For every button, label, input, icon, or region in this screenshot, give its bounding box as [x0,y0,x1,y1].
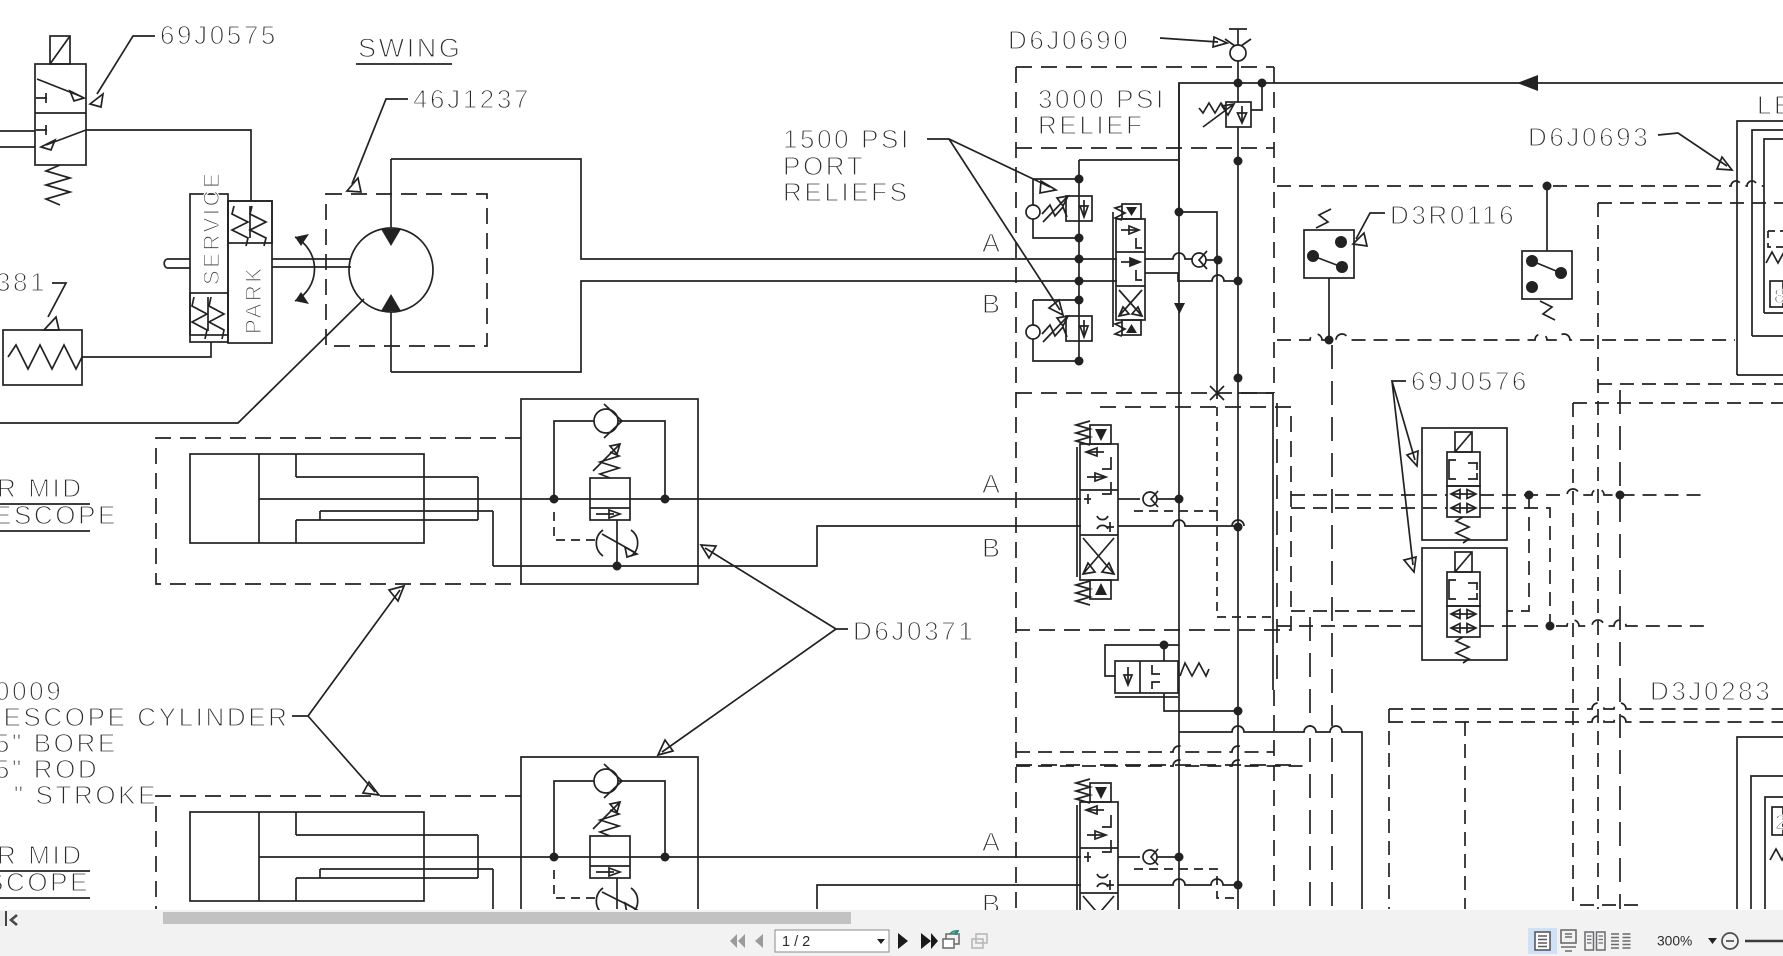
crossover line to right rail [1179,726,1362,909]
junction dot pilot trunk branch [1175,208,1184,217]
bottom dashed stub [1580,904,1640,906]
swing valve top solenoid [1115,204,1141,220]
pilot long dash vertical x1310 [1309,617,1311,909]
port relief A check ball [1026,205,1040,219]
leader line to 69J0575 [90,36,155,107]
wire from 69J0575 to brake [86,130,251,201]
svg-text:D6J0693: D6J0693 [1528,122,1650,152]
label 3000 PSI RELIEF [1038,84,1166,140]
svg-text:D6J0371: D6J0371 [853,616,975,646]
lower cylinder second stage [296,835,478,878]
upper cylinder second stage [296,477,478,520]
D3J0283 dashed box top edges [1389,703,1783,909]
return trunk through page [1178,83,1180,909]
two page view button [1585,932,1605,950]
svg-text:69J0576: 69J0576 [1411,366,1529,396]
leaders to holding valves 69J0576 [1392,381,1418,572]
junction dots on upper A line [550,495,559,504]
lower telescope cylinder barrel [190,812,424,901]
tank flow triangle on return trunk [1174,303,1185,314]
svg-text:8: 8 [1774,286,1783,308]
label SWING [356,33,463,64]
upper A line [259,498,1081,500]
swing brake SERVICE chamber [190,171,228,342]
svg-text:R MID: R MID [0,473,84,503]
leader line to D3R0381 [44,283,66,330]
pilot dashed to lower holding valve left [1277,611,1422,626]
junction dot lower tel A x return trunk [1175,853,1184,862]
pilot dashed vertical x1573 [1573,403,1783,909]
swing valve bottom solenoid [1115,320,1141,336]
next page button [898,933,908,949]
zoom slider track [1745,940,1783,942]
svg-text:B: B [982,889,1003,910]
manifold dashed right edge (upper) [1273,67,1275,393]
zoom out button [1722,933,1738,949]
tank breather symbol [1225,29,1251,61]
swing valve mid section arrow [1121,258,1142,280]
svg-text:SWING: SWING [358,33,463,63]
right pressure switch D3R0116 [1522,251,1572,299]
left switch spring [1316,209,1331,228]
port relief A spring [1042,205,1067,217]
lower tel valve A check valve [1118,849,1179,865]
long dash rail beside right rail [1276,403,1278,688]
junction dot upper tel A x return trunk [1175,495,1184,504]
junction dot header x breather [1234,79,1243,88]
right axle lock inner box [1751,776,1783,909]
right switch spring [1540,301,1555,320]
lower tel valve pilot dashed stub [1134,869,1238,898]
lower counterbalance pilot dashed line [554,870,600,898]
port relief rail connector [1079,159,1179,161]
left outrigger box (cut) [1737,121,1783,375]
label lower mid telescope [0,840,90,898]
lower A line [259,856,1081,858]
junction dots on relief rail [1075,175,1084,184]
swing valve bottom section cross [1119,290,1142,316]
svg-text:RELIEF: RELIEF [1038,110,1145,140]
svg-text:D6J0690: D6J0690 [1008,25,1130,55]
continuous scroll view button [1561,930,1576,951]
junction dot lower tel B x breather trunk [1234,881,1243,890]
svg-text:1 / 2: 1 / 2 [782,934,810,950]
telescope valve lower [1076,779,1118,956]
upper tel valve A check valve [1118,491,1179,507]
pilot line continues dashed below swing section [1217,407,1275,617]
left outrigger inner box 2 [1764,139,1783,313]
junction dot pilot x1620 [1616,491,1625,500]
lower counterbalance valve box [521,757,698,909]
wire into 69J0575 left port [0,130,35,132]
port relief B loop [1033,300,1079,361]
upper tel valve pilot dashed stub [1134,510,1218,512]
svg-text:1500 PSI: 1500 PSI [783,124,911,154]
outrigger spring W [1766,252,1783,263]
holding valve 69J0576 upper [1422,428,1507,543]
lower counterbalance relief cartridge [590,836,630,878]
junction dot header x relief pilot [1258,79,1267,88]
swing motor circle [349,228,433,312]
svg-text:A: A [982,469,1003,499]
outrigger small dashed box [1768,231,1783,247]
upper cylinder rod [320,511,493,520]
manifold dashed boundary left edge [1015,67,1017,909]
plugged port X symbol [1210,386,1224,400]
rotation arrow [295,234,315,304]
junction dot upper throttle to B [613,562,622,571]
pilot dashed from upper holding valve [1480,489,1705,495]
telescope valve upper (D6J0690 section) [1076,421,1118,605]
port relief A cartridge [1066,196,1092,221]
swing motor dashed box 46J1237 [326,194,487,346]
junction dot trunk x D3R0116 line [1234,374,1243,383]
last page button [921,933,938,949]
lower counterbalance pilot arrow [593,802,620,829]
pilot dashed vertical x1598 [1598,203,1783,909]
leader line to swing motor box [347,99,408,192]
pdf viewer toolbar [0,926,1783,956]
pilot dashed line y340 [1277,334,1735,340]
svg-text:D3J0283: D3J0283 [1650,676,1772,706]
upper counterbalance pilot arrow [593,444,620,471]
3000 PSI relief valve [1226,102,1251,127]
swing B port route [1145,273,1238,281]
relief outlet to trunk [1237,127,1239,909]
pilot dashed line y752 [1016,746,1274,752]
junction dot swing A x trunk [1214,256,1223,265]
3000 PSI relief spring [1199,103,1226,113]
motor port line top [390,159,392,228]
lower check valve branch lines [554,781,665,857]
swing pipe loop top (to A) [391,159,1117,259]
upper counterbalance throttle [596,520,637,566]
lower telescope valve dashed enclosure [1016,764,1291,766]
leader lines from cylinder text to both cylinders [292,586,404,795]
upper tel B line hops to tank trunk [1118,520,1244,526]
two page scroll view button [1611,934,1631,948]
lower counterbalance spring [600,810,619,836]
pilot dashed from lower holding valve [1480,620,1705,626]
thermal relief W valve [1105,645,1209,697]
left outrigger inner box [1752,130,1783,336]
brake input shaft stub [164,259,190,268]
lower tel B line hops to tank trunk [1118,879,1238,885]
pilot dashed vertical x1620 [1619,390,1621,909]
port relief B check ball [1026,325,1040,339]
lower counterbalance check valve [594,764,622,798]
upper rod-end B route [493,511,1081,566]
port relief rail [1078,160,1080,361]
connector to right rail [1238,392,1273,394]
swing A port to check valve with hop [1145,253,1192,259]
swing valve top section arrow [1121,226,1142,248]
junction dot pilot x1550 [1546,622,1555,631]
junction dot left switch to pilot [1325,336,1334,345]
left flow arrow on header line [1517,75,1538,91]
label telescope cylinder part text block [0,676,290,810]
wire from D3R0381 to service brake [82,342,211,357]
D6J0693 pilot dashed line [1277,181,1764,186]
service spring box (bottom left) [190,293,228,339]
junction dots on lower A line [550,853,559,862]
svg-text:381: 381 [0,267,47,297]
junction dot swing B x trunk [1234,277,1243,286]
port relief B spring [1042,325,1067,337]
W valve outlet to tank trunk [1164,693,1238,711]
pilot dashed lower port of upper valve [1291,508,1550,626]
motor flow triangle top [381,229,401,246]
upper cylinder dashed enclosure [156,438,521,584]
brake release valve D3R0381 [3,330,82,385]
svg-text:69J0575: 69J0575 [160,20,278,50]
spring of 69J0575 [46,165,70,205]
swing check to trunk [1206,259,1218,261]
pilot dashed to upper holding valve [1291,494,1447,496]
zoom dropdown caret [1708,938,1717,944]
junction dot W valve pilot [1160,641,1169,650]
leader to left pressure switch [1353,213,1385,246]
holding valve 69J0576 lower [1422,548,1507,663]
motor shaft [272,259,351,267]
right axle lock box (cut) [1737,737,1783,909]
manifold dashed divider below relief section [1016,147,1274,149]
D3J0283 inner dashed edge [1464,722,1466,909]
right axle lock inner box 2 [1765,797,1783,909]
wire into 69J0575 left port 2 [0,146,35,148]
right switch lead up [1546,186,1548,251]
pilot trunk from header [1179,212,1217,399]
svg-text:SCOPE: SCOPE [0,867,90,897]
port relief B cartridge [1066,316,1092,341]
leader to tank breather [1160,37,1227,47]
port relief A pilot arrow [1043,196,1068,222]
port relief A loop [1033,179,1079,238]
lower rod-end B route [493,869,1081,909]
lower counterbalance throttle [596,878,637,914]
swing pipe loop bottom (to B) [391,281,1117,372]
upper counterbalance valve box [521,399,698,584]
duplicate view icon (disabled) [972,934,987,948]
horizontal scrollbar [0,910,1783,926]
svg-text:A: A [982,827,1003,857]
3000 PSI relief pilot arrow [1203,104,1234,127]
swing brake PARK chamber [228,201,272,343]
return trunk top header [1179,83,1783,212]
svg-text:ESCOPE: ESCOPE [0,500,118,530]
svg-text:LE: LE [1757,90,1783,120]
svg-text:46J1237: 46J1237 [413,84,531,114]
leader to LEFT box [1658,133,1732,170]
svg-text:A: A [982,228,1003,258]
junction dot pressure switch pilot [1543,182,1552,191]
swing directional valve 4/3 [1113,212,1145,327]
label 1500 PSI PORT RELIEFS [783,124,911,207]
manifold dashed top edge [1016,66,1274,68]
breather drop line [1237,61,1239,102]
leader lines to counterbalance valves [658,545,848,755]
pilot dashed drop to lower holding valve [1507,495,1529,611]
pilot long dash vertical x1332 [1331,345,1333,909]
left pressure switch D3R0116 [1304,230,1354,278]
pilot dashed line y766 [1016,760,1310,766]
upper counterbalance spring [600,452,619,478]
upper check valve branch lines [554,421,665,499]
swing check valve [1192,251,1207,269]
svg-text:SERVICE: SERVICE [199,171,224,285]
leader line to motor from lower-left [0,299,364,423]
svg-text:2 " STROKE: 2 " STROKE [0,780,158,810]
axle spring W [1770,849,1783,860]
upper telescope cylinder barrel [190,454,424,543]
manifold dashed right edge (lower) [1273,690,1275,909]
upper counterbalance relief cartridge [590,478,630,520]
svg-text:2: 2 [1775,812,1783,834]
page number input box [775,930,889,952]
park spring box (top right) [228,201,272,246]
svg-text:R MID: R MID [0,840,84,870]
upper counterbalance pilot dashed line [554,512,600,540]
svg-text:PARK: PARK [241,265,266,334]
junction dot W valve outlet [1234,707,1243,716]
right rail solid segment [1272,393,1274,690]
svg-text:B: B [982,533,1003,563]
junction dot upper tel B x breather trunk [1234,523,1243,532]
upper telescope valve dashed enclosure [1016,407,1291,630]
solenoid pilot valve 69J0575 body [35,64,86,165]
page transition icon (green arrow) [943,930,959,948]
svg-text:D3R0116: D3R0116 [1390,200,1516,230]
lower cylinder rod [320,869,493,878]
outrigger cylinder box with 8 [1770,281,1783,308]
manifold dashed bottom of swing section [1016,392,1274,394]
motor flow triangle bottom [381,294,401,311]
first page button (disabled) [730,934,745,948]
previous page button (disabled) [755,934,763,948]
junction dot relief outlet [1234,157,1243,166]
svg-text:RELIEFS: RELIEFS [783,177,910,207]
svg-text:300%: 300% [1657,934,1692,949]
solenoid box of 69J0575 [50,36,70,64]
single page view button (active) [1528,928,1557,954]
svg-text:B: B [982,289,1003,319]
axle cylinder small box with 2 [1772,807,1783,835]
junction dot pilot x1529 [1525,491,1534,500]
port relief B pilot arrow [1043,316,1068,342]
label upper mid telescope [0,473,118,531]
leader lines to port reliefs [927,139,1063,315]
3000 PSI relief remote connection [1251,83,1262,110]
lower cylinder dashed enclosure [156,796,521,909]
left switch lead down [1328,278,1330,340]
upper counterbalance check valve [594,404,622,438]
motor port line bottom [390,312,392,372]
